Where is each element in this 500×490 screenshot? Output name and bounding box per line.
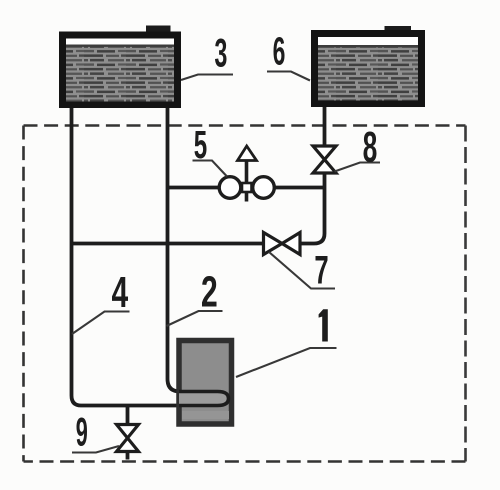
label 7 <box>315 256 327 284</box>
leader for label 1 <box>236 348 337 377</box>
pump discharge line <box>274 186 325 190</box>
leader for label 6 <box>267 72 310 81</box>
label 8 <box>363 132 376 162</box>
label 2 <box>202 276 217 307</box>
tank 3 body <box>63 35 178 105</box>
tank 3 liquid <box>66 45 174 102</box>
pump 5 connecting block <box>242 183 252 192</box>
tank 6 body <box>315 34 422 104</box>
leader for label 7 <box>269 252 335 289</box>
leader for label 4 <box>72 312 130 335</box>
dashed enclosure border right <box>464 126 467 462</box>
label 4 <box>112 277 128 307</box>
pump 5 right gear circle <box>253 177 275 199</box>
valve 7 (horizontal bowtie) <box>264 233 301 255</box>
pipe from valve 8 down, elbow into valve 7 <box>300 173 325 244</box>
leader for label 9 <box>72 446 119 453</box>
dashed enclosure border left <box>22 126 25 462</box>
tank 6 filler cap <box>385 26 412 35</box>
pump suction line <box>168 186 220 190</box>
dashed enclosure border bottom <box>24 460 466 463</box>
pipe from tank3 left outlet down, elbow, bottom return line <box>72 104 183 406</box>
pipe 2 from tank3 right outlet down into heater <box>168 104 184 392</box>
label 6 <box>274 37 285 65</box>
mid horizontal pipe y=243.5 <box>72 242 264 246</box>
label 3 <box>215 39 227 67</box>
heater 1 lighter lower band <box>182 411 229 419</box>
label 5 <box>195 131 207 158</box>
valve 8 (vertical bowtie) <box>313 146 336 173</box>
tank 6 liquid <box>318 45 418 101</box>
leader for label 3 <box>181 75 233 81</box>
label 9 <box>77 417 87 446</box>
heater 1 tube (U-turn of pipe inside) <box>179 392 229 406</box>
dashed enclosure border top <box>24 124 466 127</box>
heater 1 body <box>179 341 232 425</box>
leader for label 5 <box>193 161 228 177</box>
pump 5 relief arrow head <box>238 146 257 161</box>
valve 9 stubs <box>126 406 130 460</box>
tank 3 filler cap <box>146 26 171 35</box>
label 1 <box>319 309 328 341</box>
pipe from tank6 down to valve 8 <box>323 104 327 146</box>
leader for label 2 <box>167 311 223 326</box>
pump 5 relief arrow line <box>245 161 249 202</box>
leader for label 8 <box>335 163 381 172</box>
pump 5 left gear circle <box>219 177 241 199</box>
valve 9 (vertical bowtie) <box>117 425 139 452</box>
